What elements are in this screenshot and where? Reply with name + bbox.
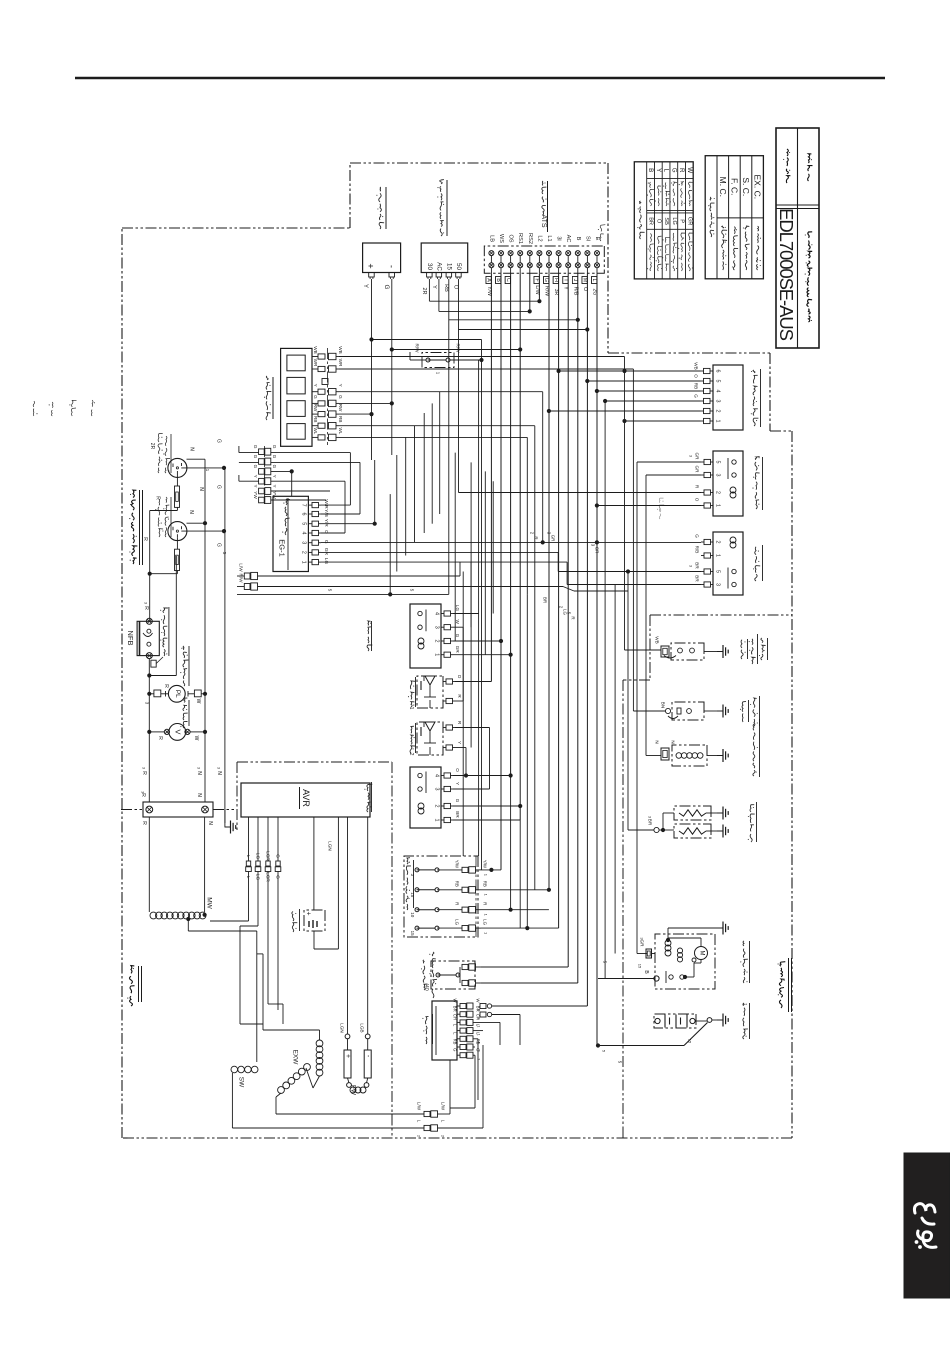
svg-text:R/B: R/B — [695, 546, 700, 554]
exciter winding EXW — [263, 954, 323, 1097]
svg-text:R: R — [483, 902, 488, 905]
svg-text:R: R — [155, 496, 161, 500]
starter key switch — [421, 243, 468, 273]
glow relay label — [755, 574, 757, 581]
panel earth — [204, 800, 206, 810]
svg-text:4: 4 — [715, 390, 721, 393]
socket wiring — [181, 467, 224, 469]
svg-text:+: + — [366, 263, 376, 268]
svg-text:N: N — [196, 793, 202, 797]
ATS charger note (faint) — [659, 504, 660, 512]
svg-text:M: M — [582, 278, 588, 283]
svg-text:N: N — [671, 740, 676, 743]
svg-text:G: G — [253, 455, 258, 459]
svg-text:AC: AC — [435, 262, 442, 271]
wire bus from ATS AC — [567, 273, 569, 967]
svg-text:G: G — [215, 485, 221, 489]
svg-text:W: W — [686, 167, 693, 173]
svg-text:4: 4 — [434, 774, 440, 777]
wires to terminal block — [148, 659, 150, 802]
svg-text:R: R — [455, 902, 460, 905]
ATS terminal strip — [484, 246, 604, 273]
svg-text:W: W — [453, 999, 458, 1003]
FW terminals — [345, 1034, 350, 1039]
diode module 1 — [417, 676, 443, 708]
svg-text:W: W — [455, 620, 460, 625]
svg-text:LGR: LGR — [266, 851, 271, 861]
svg-text:O: O — [655, 219, 661, 224]
diode1 label — [411, 702, 414, 707]
svg-text:R: R — [534, 536, 539, 539]
svg-text:R: R — [157, 736, 163, 740]
svg-text:WS: WS — [498, 234, 504, 243]
block label: engine — [779, 1000, 782, 1008]
svg-text:+: + — [344, 1054, 351, 1058]
coil table header — [710, 230, 714, 237]
svg-text:1: 1 — [301, 561, 307, 564]
svg-text:E: E — [594, 237, 600, 241]
svg-text:GR: GR — [595, 547, 600, 554]
svg-text:RB: RB — [443, 284, 449, 292]
svg-text:Y/B: Y/B — [323, 509, 329, 517]
sub winding SW — [231, 1066, 238, 1073]
solenoid label — [753, 770, 755, 776]
svg-text:O: O — [694, 374, 699, 378]
hour meter wires — [371, 282, 373, 414]
ATS pin letter J — [572, 277, 577, 284]
svg-text:Y: Y — [313, 384, 318, 387]
EG-1 pin 7 — [308, 504, 312, 506]
water temp switch — [661, 646, 669, 657]
svg-text:L: L — [591, 279, 597, 282]
svg-text:5: 5 — [715, 461, 721, 464]
svg-text:G: G — [323, 540, 329, 544]
svg-text:N: N — [216, 771, 222, 775]
svg-text:WL: WL — [338, 427, 343, 434]
svg-text:B: B — [575, 237, 581, 241]
EG-1 pin 6 — [308, 513, 312, 515]
wire bus from ATS RS2 — [529, 273, 531, 311]
svg-text:Y: Y — [431, 285, 437, 289]
svg-text:2: 2 — [715, 491, 721, 494]
svg-text:30: 30 — [426, 263, 433, 270]
harness bundle wires — [389, 494, 391, 594]
ATS pin letter I — [563, 277, 568, 284]
svg-text:G: G — [338, 395, 343, 399]
enclosure frame (dash-dot) — [122, 227, 350, 229]
diode module 2 — [417, 722, 443, 755]
wire bus from ATS B — [577, 273, 579, 983]
header rule — [75, 77, 885, 80]
svg-text:RB: RB — [694, 383, 699, 389]
svg-text:B: B — [647, 168, 654, 172]
R/W protection fuse — [422, 353, 454, 368]
glow timer wires — [559, 370, 701, 372]
relay1 wires — [453, 613, 479, 615]
svg-text:GR: GR — [455, 646, 460, 654]
ATS terminal RS2 — [527, 251, 532, 256]
starter label — [743, 977, 744, 983]
svg-text:Y/W: Y/W — [455, 860, 460, 869]
svg-text:R/W: R/W — [456, 344, 461, 354]
svg-text:WB: WB — [655, 636, 660, 643]
fuse box — [404, 856, 478, 937]
LW RW inline connectors — [244, 573, 250, 579]
title: drawing name (wiring diagram) — [809, 316, 811, 322]
EG-1 pin 5 — [308, 523, 312, 525]
title block — [776, 128, 819, 348]
svg-text:C: C — [505, 278, 511, 282]
svg-text:R: R — [163, 684, 169, 688]
ATS terminal LB — [489, 251, 494, 256]
svg-text:-: - — [387, 265, 397, 268]
svg-text:W: W — [195, 699, 201, 704]
svg-text:2: 2 — [434, 805, 440, 808]
svg-text:LGB: LGB — [360, 1023, 365, 1032]
svg-text:OS: OS — [508, 234, 514, 242]
PL label — [183, 681, 184, 686]
svg-text:WB: WB — [694, 362, 699, 369]
svg-text:I: I — [562, 279, 568, 281]
glow plug label — [750, 834, 752, 842]
svg-text:Y: Y — [655, 168, 662, 172]
EG-1 pin 2 — [308, 551, 312, 553]
ATS terminal OS — [508, 251, 513, 256]
panel connector left wires — [239, 452, 259, 454]
panel connector wires — [271, 452, 351, 454]
svg-text:G: G — [272, 465, 277, 469]
socket1 labels — [157, 468, 160, 473]
lamp connector row — [327, 348, 329, 445]
wire bus from ATS RS1 — [519, 273, 521, 820]
svg-text:L/W: L/W — [239, 563, 244, 572]
svg-text:50: 50 — [455, 263, 462, 270]
svg-text:L1: L1 — [546, 235, 552, 241]
EG-1 pin 1 — [308, 561, 312, 563]
lamp window — [287, 424, 305, 440]
svg-text:BN: BN — [661, 702, 666, 708]
battery charge fuse 40A — [431, 961, 475, 989]
glow lamp timer — [713, 365, 743, 430]
svg-text:A: A — [486, 278, 492, 282]
svg-text:R: R — [571, 616, 576, 619]
ATS label — [542, 205, 546, 215]
voltmeter label — [183, 722, 187, 729]
svg-text:15: 15 — [688, 1039, 693, 1044]
fuse 15A — [415, 888, 419, 892]
panel main runs — [237, 593, 449, 595]
svg-text:H: H — [553, 278, 559, 282]
battery cable — [598, 1045, 684, 1047]
svg-text:G: G — [695, 534, 700, 538]
svg-text:W/R: W/R — [323, 499, 329, 509]
svg-text:RS2: RS2 — [527, 233, 533, 244]
svg-text:RB: RB — [483, 881, 488, 887]
wire bus from ATS L1 — [548, 273, 550, 890]
AC socket 1 — [168, 458, 187, 477]
svg-text:3: 3 — [301, 541, 307, 544]
starter B terminal — [654, 976, 659, 981]
svg-text:R/W: R/W — [415, 344, 420, 354]
svg-text:RB: RB — [313, 416, 318, 422]
ATS terminal E — [595, 251, 600, 256]
svg-text:EDL7000SE-AUS: EDL7000SE-AUS — [776, 208, 797, 340]
svg-text:WR: WR — [313, 359, 318, 367]
regulator feed — [530, 1005, 587, 1007]
wire bus from ATS 3l — [558, 273, 560, 928]
ATS pin letter H — [553, 277, 558, 284]
panel connector strip — [263, 446, 265, 506]
svg-text:G: G — [272, 455, 277, 459]
svg-text:3: 3 — [434, 626, 440, 629]
wire bus from ATS L2 — [538, 273, 540, 301]
svg-text:L2: L2 — [536, 235, 542, 241]
battery ground — [695, 1020, 707, 1022]
svg-text:5: 5 — [301, 522, 307, 525]
condenser wiring — [313, 817, 315, 910]
svg-text:Y/W: Y/W — [483, 860, 488, 869]
ATS pin letter B — [496, 277, 501, 284]
svg-text:O: O — [323, 530, 329, 534]
block label: generator — [130, 996, 133, 1006]
svg-text:R: R — [143, 606, 149, 610]
svg-text:GR: GR — [640, 940, 645, 948]
svg-text:3: 3 — [715, 474, 721, 477]
ATS terminal L1 — [547, 251, 552, 256]
wire bus from ATS Sl — [586, 273, 588, 1006]
svg-text:BR: BR — [455, 811, 460, 818]
svg-text:AVR: AVR — [301, 789, 311, 807]
svg-text:G: G — [455, 799, 460, 803]
field wires to FW — [347, 817, 349, 1034]
svg-text:2: 2 — [715, 410, 721, 413]
svg-text:6: 6 — [301, 513, 307, 516]
ATS terminal WS — [499, 251, 504, 256]
socket2 labels — [159, 529, 163, 537]
svg-text:R: R — [142, 537, 148, 541]
svg-text:SB: SB — [663, 217, 669, 225]
svg-text:N: N — [655, 740, 660, 743]
svg-text:(40: (40 — [423, 983, 429, 990]
battery label — [743, 1029, 748, 1039]
EG-1 control unit — [273, 496, 308, 571]
starter motor — [655, 934, 715, 989]
ATS pin letter A — [486, 277, 491, 284]
NFB label — [164, 649, 165, 656]
svg-text:7: 7 — [301, 504, 307, 507]
ATS pin letter L — [592, 277, 597, 284]
main winding MW — [150, 912, 157, 919]
fuse 3A — [415, 868, 419, 872]
ATS pin letter G — [544, 277, 549, 284]
svg-text:BR: BR — [695, 562, 700, 569]
lamp window — [287, 355, 305, 371]
svg-text:G: G — [694, 394, 699, 398]
svg-text:LG: LG — [455, 605, 460, 612]
battery — [654, 1014, 696, 1028]
svg-text:AC: AC — [565, 235, 571, 243]
svg-text:O: O — [457, 675, 462, 679]
svg-text:4: 4 — [301, 532, 307, 535]
fuse below socket1 — [175, 486, 180, 507]
svg-text:G: G — [455, 634, 460, 638]
svg-text:GR: GR — [695, 466, 700, 474]
wire bus from ATS OS — [510, 273, 512, 775]
fuse 15A — [415, 926, 419, 930]
svg-text:N: N — [207, 821, 213, 825]
svg-text:2: 2 — [434, 640, 440, 643]
ATS terminal RS1 — [518, 251, 523, 256]
svg-text:4: 4 — [434, 612, 440, 615]
oil switch label — [753, 719, 756, 726]
svg-text:R: R — [140, 793, 146, 797]
field winding FW — [347, 1083, 352, 1088]
svg-text:Y: Y — [253, 484, 258, 487]
svg-text:B: B — [495, 278, 501, 282]
svg-text:2R: 2R — [421, 287, 427, 294]
svg-text:PL: PL — [174, 690, 181, 698]
svg-text:BR: BR — [453, 1006, 458, 1012]
lamp window — [287, 401, 305, 417]
svg-text:WL: WL — [313, 427, 318, 434]
EG-1 pin 4 — [308, 532, 312, 534]
svg-text:Y: Y — [338, 384, 343, 387]
svg-text:L: L — [441, 1120, 446, 1123]
pilot lamp PL — [168, 685, 185, 702]
ATS terminal AC — [566, 251, 571, 256]
svg-text:M. C.: M. C. — [718, 177, 728, 197]
svg-text:RW: RW — [338, 404, 343, 412]
glow timer label — [753, 418, 758, 426]
svg-text:EX. C.: EX. C. — [753, 175, 763, 200]
diagonal jog — [563, 587, 574, 592]
EG-1 pin 3 — [308, 542, 312, 544]
svg-text:O: O — [695, 498, 700, 502]
svg-text:WB: WB — [313, 346, 318, 353]
hour meter — [363, 243, 401, 273]
battery fuse feeds — [481, 966, 568, 968]
svg-text:G: G — [215, 439, 221, 443]
AC socket 2 — [168, 522, 187, 541]
svg-text:GR: GR — [695, 453, 700, 461]
svg-text:BR: BR — [648, 819, 653, 826]
svg-text:LGN: LGN — [340, 1023, 345, 1032]
svg-text:6: 6 — [715, 370, 721, 373]
svg-text:GR: GR — [551, 535, 556, 542]
svg-text:NFB: NFB — [126, 631, 135, 646]
svg-text:Y/R: Y/R — [323, 519, 329, 528]
generator block frame — [237, 761, 392, 763]
starter relay label — [756, 500, 759, 509]
svg-text:FW: FW — [350, 1085, 357, 1096]
svg-text:F. C.: F. C. — [729, 178, 739, 195]
svg-text:3: 3 — [715, 583, 721, 586]
svg-text:BR: BR — [695, 575, 700, 582]
key switch label — [440, 229, 442, 236]
lamp bank wires — [339, 356, 625, 358]
svg-text:L: L — [663, 168, 670, 172]
svg-text:O: O — [452, 285, 458, 290]
misc outlet bus — [224, 468, 226, 823]
AVR pin wires — [248, 817, 250, 861]
svg-text:G: G — [253, 445, 258, 449]
svg-text:CH: CH — [453, 1014, 458, 1020]
svg-text:LG: LG — [671, 217, 677, 224]
svg-text:Y: Y — [253, 475, 258, 478]
title: model header — [786, 176, 790, 183]
svg-text:3: 3 — [434, 788, 440, 791]
regulator wires — [473, 1021, 500, 1023]
svg-text:R: R — [141, 821, 147, 825]
svg-text:EXW: EXW — [292, 1050, 299, 1066]
svg-text:1: 1 — [434, 653, 440, 656]
svg-text:G: G — [453, 1048, 458, 1051]
svg-text:G: G — [313, 395, 318, 399]
svg-text:1: 1 — [434, 819, 440, 822]
gen-engine connectors L/W + L — [424, 1111, 430, 1116]
fuse box label — [406, 904, 409, 910]
coil designation table — [705, 156, 763, 279]
svg-text:RS1: RS1 — [517, 233, 523, 244]
title: name header — [808, 174, 810, 181]
svg-text:3: 3 — [715, 400, 721, 403]
svg-text:L: L — [417, 1120, 422, 1123]
svg-text:W: W — [476, 999, 481, 1003]
starter relay — [713, 451, 743, 516]
svg-text:W: W — [193, 736, 199, 741]
svg-text:SW: SW — [238, 1077, 245, 1088]
glow plugs — [654, 827, 659, 832]
svg-text:S. C.: S. C. — [741, 177, 751, 196]
svg-text:N: N — [188, 510, 194, 514]
svg-text:ATS: ATS — [540, 214, 547, 227]
svg-text:J: J — [572, 279, 578, 282]
ATS terminal 3l — [556, 251, 561, 256]
svg-text:2: 2 — [301, 551, 307, 554]
svg-text:LG: LG — [455, 919, 460, 925]
svg-text:1: 1 — [715, 554, 721, 557]
svg-text:G: G — [383, 285, 389, 290]
block label: control box — [133, 558, 137, 564]
svg-text:Sl: Sl — [584, 236, 590, 241]
svg-text:15: 15 — [445, 263, 452, 270]
fuse box feed wires — [481, 869, 501, 871]
svg-text:YW: YW — [253, 491, 258, 499]
colour table header — [640, 232, 645, 239]
svg-text:L/W: L/W — [441, 1102, 446, 1111]
svg-text:N: N — [196, 771, 202, 775]
svg-text:M: M — [699, 951, 705, 956]
NFB breaker — [137, 621, 159, 655]
svg-text:LG: LG — [323, 558, 329, 565]
svg-text:G: G — [272, 445, 277, 449]
wire colour code table — [634, 162, 693, 279]
fuse 10A — [415, 908, 419, 912]
starter relay wires — [637, 461, 701, 463]
condenser — [304, 910, 325, 931]
svg-text:L: L — [246, 855, 251, 858]
voltmeter — [169, 724, 186, 741]
svg-text:15: 15 — [410, 931, 415, 937]
svg-text:G: G — [543, 278, 549, 282]
MW tap — [186, 917, 190, 921]
svg-text:10: 10 — [410, 912, 415, 918]
svg-text:GR: GR — [686, 217, 692, 225]
arabic page tab — [904, 1153, 950, 1298]
glow feed wires — [558, 571, 701, 573]
relay 2 — [410, 767, 441, 828]
svg-text:BR: BR — [648, 217, 654, 225]
